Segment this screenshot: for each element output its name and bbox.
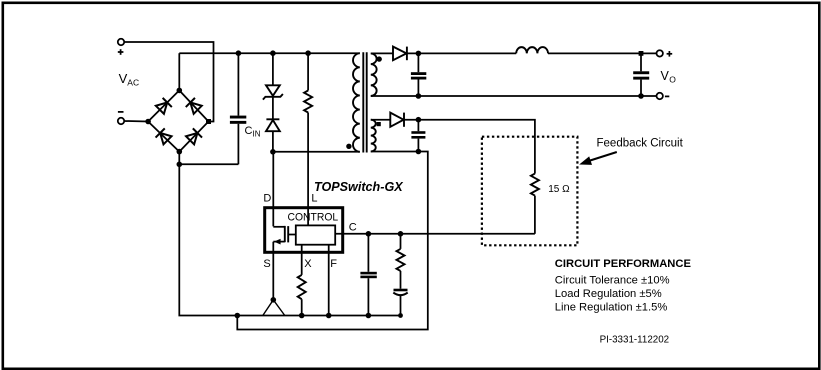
wire AC- to bridge left node	[124, 120, 148, 123]
node resistor top	[305, 50, 311, 56]
svg-text:F: F	[330, 258, 337, 270]
node bridge bottom	[177, 149, 183, 155]
wire secondary bottom rail	[371, 95, 657, 97]
bridge rectifier diamond	[148, 90, 208, 151]
wire AC+ to bridge right node	[124, 42, 213, 122]
pin label D	[263, 193, 271, 205]
bias capacitor C4	[411, 120, 425, 152]
node bias cap top	[416, 117, 422, 123]
wire inductor to + terminal	[548, 52, 657, 54]
primary phase dot	[346, 144, 351, 149]
transformer secondary winding	[371, 53, 377, 96]
feedback arrow	[579, 152, 617, 165]
inductor L1	[516, 47, 548, 53]
svg-text:D: D	[263, 193, 271, 205]
wire bias bottom return	[237, 152, 427, 330]
svg-text:S: S	[263, 258, 270, 270]
svg-text:C: C	[245, 125, 253, 137]
wire bias diode to feedback	[404, 120, 535, 174]
node bridge right	[206, 119, 211, 124]
pin label X	[304, 258, 312, 270]
pin label L	[311, 193, 317, 205]
pin label C	[349, 222, 357, 234]
bridge diode top-left	[155, 98, 172, 115]
label CONTROL	[288, 211, 339, 223]
svg-text:15 Ω: 15 Ω	[548, 184, 570, 195]
label PI number	[600, 335, 670, 346]
wire bias top to bias diode	[371, 119, 391, 121]
line sense resistor R1	[304, 53, 312, 225]
bias diode D3	[390, 113, 404, 127]
MOSFET Q	[273, 226, 296, 245]
label VO	[661, 69, 677, 85]
TOPSwitch U1 box	[265, 208, 343, 253]
feedback circuit dashed box	[482, 137, 578, 246]
node output top	[639, 51, 644, 56]
wire secondary top to output diode	[371, 52, 393, 54]
bridge diode bottom-right	[185, 128, 202, 145]
transformer T1 primary winding	[353, 53, 360, 152]
svg-text:V: V	[661, 69, 670, 83]
wire drain node down to D pin	[272, 152, 274, 227]
wire bottom return down and right to source rail	[179, 164, 237, 315]
svg-text:PI-3331-112202: PI-3331-112202	[600, 335, 670, 346]
RC network capacitor C6 polarized	[393, 289, 407, 316]
bias phase square	[377, 122, 381, 126]
node C6 bottom	[398, 313, 403, 318]
pin label S	[263, 258, 270, 270]
output + terminal	[657, 50, 673, 56]
svg-text:AC: AC	[127, 78, 139, 88]
node source rail left	[235, 313, 241, 319]
node bias cap bottom	[416, 149, 422, 155]
svg-text:Line Regulation ±1.5%: Line Regulation ±1.5%	[555, 302, 668, 314]
label Feedback Circuit	[597, 138, 684, 150]
RC network resistor R3	[397, 234, 405, 289]
wire C pin	[335, 233, 535, 235]
node bridge bottom return junction	[177, 162, 183, 168]
output - terminal	[657, 93, 670, 99]
node R3 top	[398, 231, 404, 237]
label Circuit Tolerance	[555, 275, 670, 287]
svg-text:Feedback Circuit: Feedback Circuit	[597, 138, 684, 150]
source kelvin split	[263, 297, 285, 316]
node drain junction	[270, 149, 276, 155]
output diode D2	[393, 47, 407, 61]
AC - terminal	[118, 112, 124, 124]
bridge diode bottom-left	[156, 128, 173, 145]
wire S pin	[272, 242, 274, 300]
wire bridge top to DC+ rail	[178, 53, 180, 90]
node C5 bottom	[366, 313, 372, 319]
transformer core	[363, 52, 366, 152]
pin label F	[330, 258, 337, 270]
wire drain node to primary bottom	[273, 151, 360, 153]
feedback resistor 15 ohm	[531, 174, 539, 234]
label Line Regulation	[555, 302, 668, 314]
node C5 top	[366, 231, 372, 237]
bridge diode top-right	[186, 98, 203, 115]
label Load Regulation	[555, 288, 662, 300]
X pin resistor R2	[298, 245, 306, 316]
svg-text:CONTROL: CONTROL	[288, 211, 339, 223]
node bridge top	[177, 88, 183, 94]
AC + terminal	[118, 39, 124, 55]
label 15 ohm	[548, 184, 570, 195]
wire bridge bottom to CIN return	[179, 152, 238, 165]
svg-text:O: O	[669, 75, 676, 85]
label VAC	[119, 71, 140, 88]
control block inner box	[296, 225, 335, 244]
node output bottom	[638, 93, 644, 99]
wire DC+ rail	[179, 52, 359, 54]
node zener top	[270, 50, 276, 56]
node CIN top	[236, 50, 242, 56]
node C2 bottom	[416, 93, 422, 99]
capacitor C2	[411, 53, 426, 96]
svg-text:X: X	[304, 258, 312, 270]
svg-text:CIRCUIT PERFORMANCE: CIRCUIT PERFORMANCE	[555, 258, 692, 270]
secondary phase dot	[377, 56, 382, 61]
output capacitor C3	[633, 53, 649, 96]
capacitor CIN	[230, 53, 246, 164]
node output cap C2 top	[416, 51, 422, 57]
node F on rail	[326, 313, 332, 319]
blocking diode D1	[266, 119, 280, 152]
label CIRCUIT PERFORMANCE	[555, 258, 692, 270]
node bridge left	[145, 119, 151, 125]
svg-text:C: C	[349, 222, 357, 234]
svg-text:Circuit Tolerance ±10%: Circuit Tolerance ±10%	[555, 275, 670, 287]
label TOPSwitch-GX	[314, 180, 404, 194]
wire F pin	[328, 245, 330, 316]
svg-text:TOPSwitch-GX: TOPSwitch-GX	[314, 180, 404, 194]
zener clamp VR1	[263, 53, 283, 119]
svg-text:V: V	[119, 71, 128, 86]
control bypass capacitor C5	[360, 234, 376, 316]
transformer bias winding	[371, 120, 376, 152]
source rail	[237, 315, 400, 317]
svg-text:Load Regulation ±5%: Load Regulation ±5%	[555, 288, 662, 300]
node X on rail	[299, 313, 305, 319]
svg-text:L: L	[311, 193, 317, 205]
svg-text:IN: IN	[253, 130, 261, 139]
wire output diode to inductor	[407, 52, 516, 54]
label CIN	[245, 125, 261, 139]
